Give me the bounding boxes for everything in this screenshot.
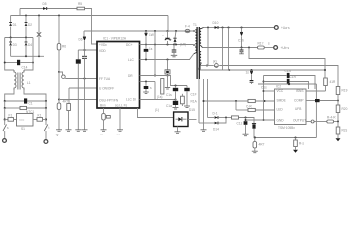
- svg-text:OSU·FPT/FN: OSU·FPT/FN: [99, 99, 119, 103]
- diode D6: [83, 31, 86, 50]
- thermistor RT1 row y108: [4, 106, 47, 109]
- svg-text:D15: D15: [189, 108, 195, 112]
- switch SW1 diagonal: [3, 120, 7, 139]
- capacitor C17: [287, 73, 290, 78]
- aux sense wire y101: [203, 100, 275, 102]
- svg-text:R1?: R1?: [258, 42, 264, 46]
- wire aux feed y31: [84, 30, 193, 32]
- capacitor C20 column x254: [252, 124, 256, 138]
- zener D12: [250, 70, 254, 84]
- wire aux hook to T1: [190, 54, 195, 60]
- svg-text:D2: D2: [28, 23, 32, 27]
- svg-text:t: t: [49, 126, 50, 130]
- fuse oval F2 on primary feed: [185, 29, 190, 32]
- svg-text:R·4·R: R·4·R: [327, 116, 336, 120]
- wire y81.5 IC1 right: [140, 81, 156, 83]
- svg-text:1s: 1s: [246, 71, 250, 75]
- capacitor C18: [287, 79, 290, 84]
- svg-text:D1: D1: [13, 23, 17, 27]
- fuse F1 box: [5, 118, 14, 122]
- capacitor C3 VDD: [82, 50, 87, 79]
- wire fb y99.5: [140, 99, 177, 101]
- svg-text:R19: R19: [342, 89, 348, 93]
- resistor R24 under bus: [293, 138, 298, 153]
- svg-text:1W: 1W: [149, 33, 154, 37]
- diode D1: [9, 16, 12, 38]
- svg-text:C1s: C1s: [166, 93, 172, 97]
- svg-text:C1A: C1A: [285, 69, 292, 73]
- svg-text:U ON/OFF: U ON/OFF: [99, 87, 114, 91]
- svg-text:K1: K1: [38, 114, 42, 118]
- resistor R11: [181, 94, 185, 106]
- svg-text:D·1: D·1: [213, 112, 218, 116]
- svg-text:R·s: R·s: [299, 142, 304, 146]
- svg-text:SMDE: SMDE: [277, 99, 286, 103]
- HV bus wire y15.5: [11, 15, 168, 17]
- wire x84.5 to ground foot: [84, 79, 86, 130]
- svg-text:Bnn: Bnn: [100, 104, 106, 108]
- comp wire y75.5: [264, 76, 316, 90]
- diode D11: [240, 28, 243, 48]
- wire ctrl y75.5: [140, 75, 168, 77]
- secondary lower wire y65.5: [201, 66, 339, 87]
- ground foot x120: [117, 130, 124, 137]
- diode D2: [25, 16, 28, 38]
- svg-text:···: ···: [100, 133, 103, 137]
- fb rail x264.5: [263, 76, 265, 122]
- IC1 pin 1 oval component R9: [102, 108, 111, 130]
- choke L1: [14, 70, 24, 90]
- ground rail wire y70: [200, 69, 326, 71]
- wire x59 down to FB node: [58, 72, 60, 101]
- wire y58.5 reg feed: [249, 48, 325, 79]
- wire right AC column x33: [24, 38, 33, 71]
- IC2 box: [275, 89, 307, 125]
- supply bus y137.5: [254, 136, 317, 138]
- svg-text:D6: D6: [79, 38, 83, 42]
- svg-text:D3: D3: [13, 43, 17, 47]
- wire ON/OFF branch x68.5: [69, 88, 97, 104]
- capacitor C8 column x228.5: [228, 28, 230, 72]
- top bus wire y8.5: [20, 8, 77, 10]
- svg-text:T1: T1: [193, 23, 197, 27]
- enclosure right edge: [315, 84, 317, 138]
- svg-text:LLC: LLC: [128, 58, 135, 62]
- resistor R13: [232, 116, 239, 119]
- capacitor C22 column x187: [184, 86, 190, 108]
- wire VCC y91: [264, 90, 275, 92]
- zener D7: [145, 31, 148, 45]
- svg-text:·s·: ·s·: [56, 133, 60, 137]
- ground under opto x167.5: [165, 76, 170, 90]
- svg-text:IC1 - VIPER12A: IC1 - VIPER12A: [103, 37, 127, 41]
- resistor R21: [327, 120, 334, 123]
- svg-text:C·R: C·R: [246, 105, 252, 109]
- ground foot x84.5: [82, 130, 88, 132]
- svg-text:F1: F1: [9, 114, 13, 118]
- wire pin P1 to IC1: [65, 78, 97, 80]
- ground foot x78.3: [75, 130, 81, 132]
- IC1 pin texts: [99, 43, 137, 108]
- resistor R5: [77, 7, 85, 10]
- AC terminal J1: [3, 139, 7, 143]
- svg-text:UFB: UFB: [295, 107, 301, 111]
- svg-text:C1: C1: [29, 102, 33, 106]
- terminal J3 plus output: [274, 26, 278, 30]
- bridge module D14 box: [174, 112, 188, 127]
- svg-text:41R: 41R: [330, 80, 337, 84]
- svg-text:···: ···: [117, 133, 120, 137]
- svg-text:+Ua·s: +Ua·s: [281, 26, 290, 30]
- wire IC1 drain pin to D14 box: [138, 108, 174, 118]
- svg-text:C1b: C1b: [238, 39, 244, 43]
- wire FB to IC1: [59, 99, 97, 101]
- ground return bus wire y56.3: [11, 55, 44, 57]
- aux rect wire y117.5: [208, 117, 255, 124]
- svg-text:R2s: R2s: [342, 129, 348, 133]
- svg-text:D10: D10: [213, 21, 219, 25]
- IC2 pin texts: [277, 89, 307, 123]
- capacitor C19 column x245.5: [243, 118, 249, 136]
- svg-text:ISNS: ISNS: [296, 89, 303, 93]
- wire D14 box bottom ground: [175, 127, 181, 134]
- wire right column to terminal: [44, 120, 48, 140]
- svg-text:(k): (k): [213, 60, 217, 64]
- node x59 y72 branch: [58, 71, 63, 75]
- resistor R17: [258, 46, 274, 49]
- test pin P1 circle: [62, 75, 66, 79]
- ground foot x68.5: [66, 130, 72, 132]
- svg-text:S1: S1: [21, 127, 25, 131]
- ground foot x203.5: [201, 130, 207, 132]
- svg-text:DR: DR: [128, 74, 133, 78]
- svg-text:D4: D4: [28, 43, 32, 47]
- wire output y121.5 right: [306, 121, 339, 123]
- svg-text:(1s): (1s): [157, 95, 163, 99]
- svg-text:OUTPUT: OUTPUT: [293, 119, 306, 123]
- svg-text:≈≈≈: ≈≈≈: [19, 118, 24, 122]
- enclosure top wire y84: [258, 83, 316, 85]
- varistor RV1 (X symbol): [37, 16, 41, 57]
- svg-text:VCC: VCC: [277, 89, 284, 93]
- svg-text:~: ~: [162, 34, 164, 38]
- wire ISNS y91 right: [306, 90, 326, 92]
- diode D13: [215, 116, 219, 119]
- terminal J4: [274, 46, 278, 50]
- capacitor C1 (Y cap): [24, 98, 27, 103]
- svg-text:C1z: C1z: [237, 122, 243, 126]
- capacitor C4 snubber: [165, 31, 171, 45]
- svg-text:COMP: COMP: [294, 99, 304, 103]
- svg-text:FF TUA: FF TUA: [99, 77, 111, 81]
- svg-text:VDD: VDD: [99, 49, 106, 53]
- svg-text:D14: D14: [213, 128, 219, 132]
- svg-text:D5: D5: [43, 2, 47, 6]
- LED sense wire y110: [236, 109, 275, 111]
- T1 secondary winding upper: [200, 28, 204, 48]
- diode D5: [43, 7, 47, 10]
- AC mid bus wire y37.5: [5, 37, 33, 39]
- svg-text:C1a: C1a: [166, 104, 172, 108]
- filter block S1: [14, 114, 34, 127]
- node bus junctions: [25, 15, 60, 17]
- svg-text:C1R: C1R: [290, 75, 297, 79]
- comp wire y81.5: [264, 82, 309, 90]
- wire x236 branch down: [235, 101, 237, 110]
- capacitor C12: [173, 86, 178, 100]
- capacitor C21: [315, 99, 320, 102]
- wire D14 box out right: [188, 119, 197, 121]
- wire top bus riser x20: [19, 9, 21, 16]
- svg-text:R20: R20: [342, 107, 348, 111]
- wire drain y44.5: [140, 44, 194, 46]
- svg-text:L1: L1: [27, 81, 31, 85]
- IC1 pin 2 wire: [119, 108, 121, 130]
- resistor R18: [324, 78, 328, 91]
- aux rect wire y123: [199, 118, 226, 124]
- wire comp ext y85.5: [168, 76, 188, 87]
- capacitor C14 (X2 film cap): [4, 60, 34, 65]
- svg-text:TSM·105Bx: TSM·105Bx: [278, 126, 295, 130]
- wire x155 down: [154, 82, 156, 100]
- resistor R15: [248, 108, 255, 111]
- wire secondary bottom to ground rail: [200, 66, 202, 71]
- capacitor C15 source decouple: [171, 45, 177, 57]
- capacitor C5 on x167.5: [165, 60, 170, 77]
- svg-text:LED: LED: [277, 108, 284, 112]
- wire EMI row y101: [4, 100, 47, 102]
- resistor R7 (electrolytic lower): [57, 100, 61, 130]
- svg-text:(1R): (1R): [180, 43, 186, 47]
- svg-text:DC+: DC+: [126, 43, 133, 47]
- wire x168 from HV bus corner: [167, 16, 170, 32]
- svg-text:C1s: C1s: [261, 86, 267, 90]
- resistor R10 vertical: [161, 79, 164, 95]
- capacitor C6 column x208: [206, 28, 208, 67]
- svg-text:F·4: F·4: [185, 25, 190, 29]
- resistor R20: [336, 101, 340, 122]
- wire left AC column x4.7: [5, 38, 14, 71]
- svg-text:+Ub·s: +Ub·s: [281, 46, 290, 50]
- diode D10: [215, 26, 219, 29]
- svg-text:4R7: 4R7: [63, 100, 69, 104]
- IC1 box VIPer: [97, 42, 140, 109]
- diode D4: [25, 38, 28, 57]
- zener D8: [144, 45, 149, 60]
- svg-text:IC2: IC2: [276, 85, 281, 89]
- tap rail wire y47.5: [203, 47, 258, 49]
- svg-text:GND: GND: [277, 119, 285, 123]
- resistor R19: [336, 87, 340, 101]
- resistor R23: [252, 138, 258, 153]
- wire choke left leg down: [5, 90, 14, 101]
- pin circle P2: [214, 64, 218, 68]
- transformer T1 core: [197, 27, 199, 79]
- svg-text:R6: R6: [62, 45, 66, 49]
- diode D9 snubber: [173, 31, 176, 45]
- ground foot x103.5: [100, 130, 107, 137]
- resistor R6 startup column: [57, 16, 61, 73]
- svg-text:LLC Dr: LLC Dr: [126, 98, 137, 102]
- output rail wire y27.5: [204, 27, 275, 29]
- resistor R14: [248, 99, 255, 102]
- diode D14: [215, 122, 219, 125]
- svg-text:4R7: 4R7: [259, 143, 265, 147]
- wire left column y101 to y108: [5, 101, 46, 108]
- wire from R5 to IC1 VDD top corner: [85, 9, 98, 45]
- connector box K1: [33, 118, 46, 122]
- resistor R8: [67, 104, 71, 130]
- capacitor C7 column x222.5: [222, 28, 224, 71]
- T1 secondary winding lower: [199, 52, 202, 70]
- wire x155 link: [154, 31, 156, 77]
- svg-text:(1): (1): [155, 108, 159, 112]
- svg-text:R1A: R1A: [191, 100, 198, 104]
- wire source y59.5: [140, 59, 191, 61]
- capacitor C23: [143, 82, 149, 94]
- svg-text:R5: R5: [78, 2, 82, 6]
- T1 leg pins down: [199, 79, 208, 130]
- diode D3: [9, 38, 12, 57]
- T1 aux winding: [194, 48, 197, 54]
- capacitor C13: [173, 100, 179, 110]
- svg-text:C1F: C1F: [191, 93, 197, 97]
- svg-text:sq LL Fs: sq LL Fs: [115, 104, 128, 108]
- T1 primary winding: [193, 30, 197, 47]
- svg-text:C14: C14: [22, 66, 28, 70]
- resistor R22: [336, 122, 341, 142]
- wire choke right leg down: [24, 90, 46, 101]
- ground foot x59: [56, 130, 63, 137]
- wire comp y100.5 right: [306, 100, 339, 102]
- capacitor C2 VDD bulk: [76, 50, 81, 130]
- pin circle P3: [311, 120, 314, 123]
- AC terminal J2: [44, 140, 48, 144]
- wire columns down to filter row: [4, 108, 48, 121]
- svg-text:+VDc: +VDc: [99, 43, 107, 47]
- capacitor C9 under tap: [239, 48, 244, 54]
- wire VDD node y50: [78, 49, 97, 51]
- wire GND y120: [245, 119, 275, 121]
- svg-text:1s: 1s: [149, 47, 153, 51]
